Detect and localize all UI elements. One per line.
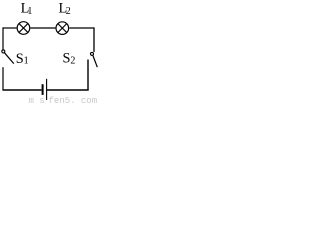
wire left upper vertical <box>2 27 4 50</box>
label S2 <box>63 50 76 66</box>
wire left lower vertical <box>2 67 4 90</box>
switch S1 <box>2 50 14 64</box>
battery positive plate (long) <box>46 79 48 100</box>
label L2 <box>59 1 71 18</box>
wire bottom-right segment <box>47 89 89 91</box>
svg-text:S: S <box>16 51 24 67</box>
wire top-left segment <box>3 27 17 29</box>
wire between lamps <box>30 27 55 29</box>
label L1 <box>21 1 33 17</box>
wire right lower vertical <box>87 60 89 91</box>
label S1 <box>16 51 29 67</box>
svg-text:1: 1 <box>27 6 32 17</box>
battery negative plate (short thick) <box>42 84 44 95</box>
svg-text:m s: m s <box>29 96 45 104</box>
wire right upper vertical <box>93 27 95 52</box>
svg-text:2: 2 <box>66 6 71 17</box>
svg-text:fen5. com: fen5. com <box>49 96 98 104</box>
svg-text:1: 1 <box>24 56 29 67</box>
wire bottom-left segment <box>3 89 42 91</box>
svg-text:S: S <box>63 50 71 66</box>
lamp L1 <box>17 22 30 35</box>
watermark <box>29 96 98 106</box>
svg-text:2: 2 <box>70 56 75 67</box>
switch S2 <box>91 52 98 67</box>
wire top-right segment <box>69 27 94 29</box>
lamp L2 <box>56 22 69 35</box>
